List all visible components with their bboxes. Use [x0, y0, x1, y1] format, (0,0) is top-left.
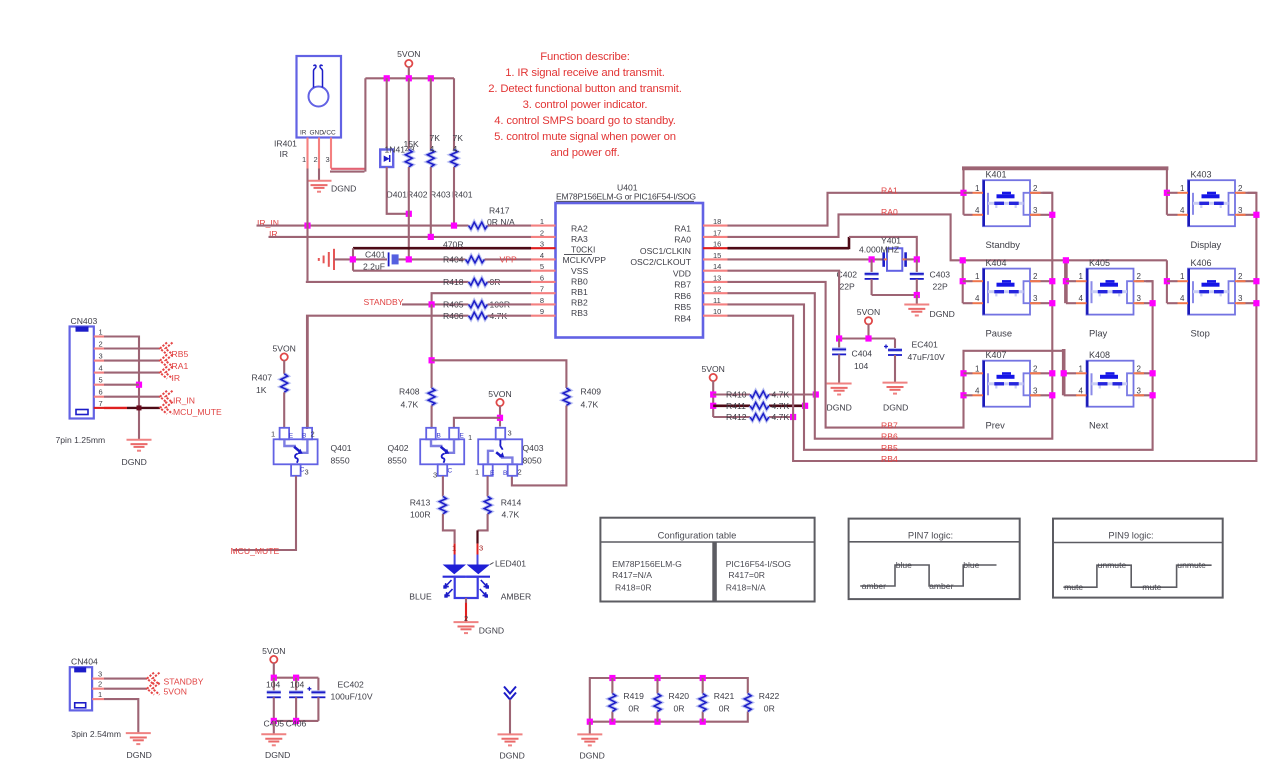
svg-text:1K: 1K — [256, 385, 267, 395]
svg-text:RB6: RB6 — [881, 432, 898, 442]
svg-text:8050: 8050 — [523, 456, 542, 466]
wire R404 to pin 4, net label VPP — [485, 258, 532, 260]
svg-text:13: 13 — [713, 273, 721, 282]
junction K407 pin1 — [960, 370, 966, 376]
connector CN403 7pin 1.25mm — [56, 316, 106, 445]
resistor R418 0R — [469, 279, 488, 286]
svg-text:K408: K408 — [1089, 350, 1110, 360]
net glyph/label STANDBY (CN404) — [147, 673, 160, 685]
svg-text:4.7K: 4.7K — [772, 390, 790, 400]
svg-text:4.7K: 4.7K — [772, 412, 790, 422]
wire rail to D401 — [386, 78, 388, 149]
junction C405 top — [271, 675, 277, 681]
svg-text:3: 3 — [1238, 206, 1243, 215]
wire VCC of IR401 to 5VON rail — [331, 168, 365, 170]
wire OSC2 from pin 15 — [728, 258, 883, 260]
ground DGND below IR401 — [307, 181, 332, 192]
svg-text:0R: 0R — [764, 704, 775, 714]
U401 pin 2 (RA3) — [531, 236, 556, 238]
U401 pin 11 (RB5) — [703, 303, 728, 305]
svg-text:8550: 8550 — [388, 456, 407, 466]
wire RB7 row verticals — [1064, 372, 1076, 374]
junction K406 pin2 / RB4 — [1253, 278, 1259, 284]
junction K403 pin3 / RB4 — [1253, 212, 1259, 218]
key switch K404 Pause — [973, 258, 1041, 339]
net glyph/label IR_IN — [160, 391, 173, 403]
svg-text:2: 2 — [99, 340, 103, 349]
svg-text:4. control SMPS board go to st: 4. control SMPS board go to standby. — [494, 115, 676, 127]
junction crystal right / C403 — [914, 256, 920, 262]
svg-text:3: 3 — [1238, 294, 1243, 303]
svg-text:K404: K404 — [986, 258, 1007, 268]
MCU U401 EM78P156ELM-G or PIC16F54-I/SOG — [556, 183, 704, 338]
svg-text:Stop: Stop — [1191, 327, 1210, 338]
svg-text:5: 5 — [540, 262, 544, 271]
junction K407 pin4 — [960, 392, 966, 398]
IR receiver module IR401 — [274, 56, 341, 159]
wire R420 column — [656, 678, 658, 694]
svg-text:1: 1 — [98, 690, 102, 699]
svg-text:B: B — [437, 433, 441, 440]
svg-text:3: 3 — [1033, 386, 1038, 395]
svg-text:EC401: EC401 — [912, 340, 938, 350]
table: PIN7 logic — [849, 519, 1020, 600]
svg-text:8: 8 — [540, 296, 544, 305]
wire cap bottoms — [872, 294, 917, 296]
resistor R420 0R — [654, 694, 661, 712]
key switch K407 Prev — [973, 350, 1041, 431]
svg-text:RB1: RB1 — [571, 287, 588, 297]
capacitor EC402 100uF/10V — [317, 678, 319, 693]
junction cap bottom rail — [914, 292, 920, 298]
wire CN404 pin2 5VON — [104, 688, 147, 690]
svg-text:5: 5 — [99, 376, 103, 385]
junction K401 pin1 — [960, 190, 966, 196]
svg-text:K401: K401 — [986, 169, 1007, 179]
svg-text:7: 7 — [540, 285, 544, 294]
svg-text:1: 1 — [540, 217, 544, 226]
svg-text:2: 2 — [314, 155, 318, 164]
table: PIN9 logic — [1053, 519, 1223, 598]
net glyph/label MCU_MUTE — [160, 402, 173, 414]
svg-text:7pin 1.25mm: 7pin 1.25mm — [56, 435, 106, 445]
svg-text:2. Detect functional button an: 2. Detect functional button and transmit… — [488, 83, 682, 95]
table: Configuration table — [600, 518, 814, 602]
svg-text:R417: R417 — [489, 206, 510, 216]
svg-text:4.: 4. — [430, 144, 437, 154]
svg-text:BLUE: BLUE — [409, 592, 432, 602]
svg-text:CN404: CN404 — [71, 657, 98, 667]
junction R402 column / pin4 net — [406, 256, 412, 262]
svg-text:RB5: RB5 — [674, 302, 691, 312]
resistor R402 15K — [405, 150, 412, 168]
svg-text:RA0: RA0 — [674, 235, 691, 245]
wire R409 to Q403 base — [512, 406, 567, 486]
svg-text:2: 2 — [1033, 184, 1038, 193]
power symbol 5VON mid — [865, 317, 872, 324]
svg-text:MCU_MUTE: MCU_MUTE — [231, 546, 280, 556]
svg-text:RB4: RB4 — [674, 314, 691, 324]
svg-text:R407: R407 — [252, 373, 273, 383]
svg-text:3: 3 — [305, 468, 309, 477]
resistor R414 4.7K — [484, 496, 491, 514]
svg-text:4.7K: 4.7K — [772, 401, 790, 411]
junction K406 pin3 / RB4 — [1253, 300, 1259, 306]
svg-text:4.7K: 4.7K — [401, 400, 419, 410]
key switch K403 Display — [1178, 169, 1246, 250]
wire R414 to LED pin 3 — [478, 514, 488, 531]
wire Q403 emitter to R414 — [487, 476, 489, 496]
wire R410 line — [713, 393, 750, 395]
junction K404 pin3 / RB6 — [1049, 300, 1055, 306]
svg-text:3: 3 — [326, 155, 330, 164]
net glyph/label 5VON (CN404) — [147, 683, 160, 695]
svg-text:D401: D401 — [387, 190, 408, 200]
wire STANDBY to R405 — [402, 303, 469, 305]
power symbol 5VON caps — [270, 656, 277, 663]
wire rail to R402 — [408, 78, 410, 149]
svg-text:R411: R411 — [726, 401, 746, 411]
svg-text:470R: 470R — [443, 240, 464, 250]
svg-text:104: 104 — [290, 680, 305, 690]
svg-text:100uF/10V: 100uF/10V — [331, 692, 373, 702]
svg-text:EM78P156ELM-G or PIC16F54-I/SO: EM78P156ELM-G or PIC16F54-I/SOG — [556, 192, 696, 202]
wire IR (pin2 net) — [269, 236, 532, 238]
svg-text:7K: 7K — [453, 133, 464, 143]
svg-text:Function describe:: Function describe: — [540, 51, 630, 63]
svg-text:IR_IN: IR_IN — [173, 396, 195, 406]
resistor R413 100R — [440, 496, 447, 514]
junction 5VON tap — [865, 335, 871, 341]
wire crystal right node — [906, 258, 917, 260]
wire cap top rail — [274, 677, 319, 679]
svg-text:RB0: RB0 — [571, 276, 588, 286]
svg-text:3: 3 — [540, 240, 544, 249]
net glyph/label IR — [160, 367, 173, 379]
svg-text:5VON: 5VON — [397, 49, 420, 59]
junction block/ground — [587, 719, 593, 725]
U401 pin 10 (RB4) — [703, 315, 728, 317]
junction R411 / RB5 column — [802, 403, 808, 409]
CN403 pin 6 — [94, 396, 104, 398]
svg-text:2: 2 — [98, 680, 102, 689]
junction K404 pin1 — [960, 278, 966, 284]
svg-text:104: 104 — [266, 680, 281, 690]
svg-text:5VON: 5VON — [272, 344, 295, 354]
U401 pin 7 (RB1) — [531, 292, 556, 294]
svg-text:2: 2 — [540, 228, 544, 237]
svg-text:IR401: IR401 — [274, 139, 297, 149]
svg-text:blue: blue — [896, 560, 912, 570]
svg-text:PIN9 logic:: PIN9 logic: — [1108, 530, 1153, 541]
wire 5VON top rail — [365, 77, 454, 79]
svg-text:4: 4 — [975, 386, 980, 395]
wire R409 branch — [432, 360, 567, 388]
wire block to ground — [589, 722, 591, 735]
resistor R403 4.7K — [427, 150, 434, 168]
svg-text:RA1: RA1 — [172, 361, 189, 371]
svg-text:Play: Play — [1089, 327, 1108, 338]
svg-text:Q403: Q403 — [523, 443, 544, 453]
svg-text:22P: 22P — [840, 282, 856, 292]
svg-text:2: 2 — [1137, 364, 1142, 373]
junction C406 bottom — [293, 718, 299, 724]
wire R412 line — [713, 416, 750, 418]
svg-text:4: 4 — [975, 206, 980, 215]
svg-text:4: 4 — [540, 251, 544, 260]
svg-text:R413: R413 — [410, 498, 431, 508]
wire RB1 pin7 corner — [432, 293, 531, 304]
svg-text:R419: R419 — [623, 691, 644, 701]
svg-text:R420: R420 — [669, 691, 690, 701]
svg-text:R417=N/A: R417=N/A — [612, 570, 652, 580]
U401 pin 9 (RB3) — [531, 315, 556, 317]
resistor R422 0R — [744, 694, 751, 712]
junction R403 / IR — [428, 234, 434, 240]
note: function description text — [488, 51, 682, 159]
svg-text:E: E — [289, 433, 294, 440]
svg-text:8550: 8550 — [331, 456, 350, 466]
svg-text:Configuration table: Configuration table — [658, 530, 737, 541]
CN403 pin 5 — [94, 384, 104, 386]
svg-text:R414: R414 — [501, 498, 522, 508]
svg-text:VDD: VDD — [673, 269, 691, 279]
svg-text:1: 1 — [99, 328, 103, 337]
svg-text:R403: R403 — [430, 190, 451, 200]
wire R411 line thick dark — [713, 404, 750, 407]
power symbol 5VON Q401 — [281, 353, 288, 360]
svg-text:RB5: RB5 — [172, 349, 189, 359]
svg-text:Standby: Standby — [986, 239, 1021, 250]
svg-text:4: 4 — [1079, 386, 1084, 395]
svg-text:R406: R406 — [443, 311, 464, 321]
wire R406 to pin 9 — [488, 315, 532, 317]
svg-text:RA3: RA3 — [571, 234, 588, 244]
junction R419 bottom — [609, 719, 615, 725]
power symbol 5VON Q403 — [496, 399, 503, 406]
svg-text:R418=N/A: R418=N/A — [726, 583, 766, 593]
svg-text:4: 4 — [975, 294, 980, 303]
junction K405 pin3 / RB5 — [1150, 300, 1156, 306]
wire K405 right to RB5 column — [1136, 280, 1153, 282]
junction 5VON / rail — [406, 75, 412, 81]
svg-text:R412: R412 — [726, 412, 747, 422]
wire cap bottom rail — [274, 720, 319, 722]
IR401 pin 1 — [306, 138, 308, 169]
wire to ground under caps — [273, 721, 275, 734]
wire Q402 emitter to 5VON — [454, 418, 500, 428]
key switch K408 Next — [1076, 350, 1144, 431]
ground DGND crystal — [904, 305, 929, 316]
junction K408 pin2 / RB5 — [1150, 370, 1156, 376]
svg-text:RB7: RB7 — [881, 421, 898, 431]
svg-text:4.000MHZ: 4.000MHZ — [859, 245, 899, 255]
svg-text:3: 3 — [433, 471, 437, 480]
svg-text:22P: 22P — [933, 282, 949, 292]
junction R403 column / rail — [428, 75, 434, 81]
resistor R404 470R — [466, 256, 485, 263]
IR401 pin 2 — [318, 138, 320, 169]
wire K406 right to RB4 column — [1237, 280, 1256, 282]
svg-text:EC402: EC402 — [338, 680, 364, 690]
transistor Q403 8050 — [478, 428, 522, 476]
svg-text:1: 1 — [1180, 184, 1185, 193]
net glyph/label RA1 — [160, 355, 173, 367]
svg-text:DGND: DGND — [122, 457, 147, 467]
wire T0CKI thick dark (pin3) — [353, 247, 531, 250]
svg-text:C406: C406 — [286, 719, 307, 729]
wire RB4 (pin 10) — [728, 193, 1257, 461]
svg-text:4.: 4. — [453, 144, 460, 154]
wire CN403 pin2 RB5 — [104, 347, 160, 349]
svg-text:3: 3 — [98, 670, 102, 679]
wire RA0 from pin 17 — [728, 214, 1167, 260]
U401 pin 1 (RA2) — [531, 225, 556, 227]
U401 pin 12 (RB6) — [703, 292, 728, 294]
resistor R409 4.7K — [563, 388, 570, 406]
svg-text:4: 4 — [1180, 206, 1185, 215]
svg-text:Q402: Q402 — [388, 443, 409, 453]
svg-text:3: 3 — [99, 352, 103, 361]
svg-text:AMBER: AMBER — [501, 592, 532, 602]
junction R421 bottom — [700, 719, 706, 725]
svg-text:6: 6 — [99, 388, 103, 397]
svg-text:2: 2 — [311, 430, 315, 439]
svg-text:mute: mute — [1064, 582, 1083, 592]
svg-text:2: 2 — [1137, 272, 1142, 281]
crystal Y401 4.000MHZ — [859, 236, 906, 271]
wire K403 right to RB4 column — [1237, 192, 1256, 194]
wire RA1 from pin 18 — [728, 193, 964, 226]
wire IR401 pin2 to ground — [318, 169, 320, 181]
svg-text:Prev: Prev — [986, 420, 1006, 431]
svg-text:VSS: VSS — [571, 266, 588, 276]
wire R403 to IR line — [430, 167, 432, 237]
wire Q402 collector to R413 — [442, 476, 444, 496]
resistor R410 4.7K — [750, 391, 769, 398]
CN403 pin 3 — [94, 360, 104, 362]
svg-text:2: 2 — [1033, 272, 1038, 281]
wire RB7 (pin 13) — [728, 282, 1064, 428]
junction C406 top — [293, 675, 299, 681]
junction R411 tap — [710, 403, 716, 409]
capacitor C405 104 — [273, 678, 275, 693]
wire RA0 row verticals — [962, 260, 964, 303]
svg-text:PIN7 logic:: PIN7 logic: — [908, 530, 953, 541]
svg-text:VCC: VCC — [322, 130, 336, 137]
svg-text:unmute: unmute — [1177, 560, 1206, 570]
svg-text:0R: 0R — [674, 704, 685, 714]
CN403 pin 7 — [94, 407, 104, 409]
ground DGND spare — [498, 734, 523, 745]
svg-text:PIC16F54-I/SOG: PIC16F54-I/SOG — [726, 559, 792, 569]
junction R410 tap — [710, 391, 716, 397]
svg-text:amber: amber — [929, 581, 953, 591]
svg-text:4.7K: 4.7K — [581, 400, 599, 410]
svg-text:IR: IR — [300, 130, 307, 137]
wire R407 to Q401 emitter — [283, 392, 285, 428]
svg-text:5VON: 5VON — [488, 389, 511, 399]
wire OSC1 thick dark from pin 16 — [728, 247, 850, 250]
wire IR_IN (pin1 net) — [257, 225, 469, 227]
resistor R401 4.7K — [451, 150, 458, 168]
U401 pin 13 (RB7) — [703, 281, 728, 283]
resistor R407 1K — [281, 374, 288, 393]
svg-text:R421: R421 — [714, 691, 735, 701]
svg-text:RB2: RB2 — [571, 298, 588, 308]
wire R413 to LED pin 1 — [443, 514, 455, 544]
svg-text:DGND: DGND — [930, 309, 955, 319]
svg-text:5VON: 5VON — [164, 687, 187, 697]
wire OSC1 over crystal — [849, 237, 917, 260]
svg-text:VPP: VPP — [500, 254, 517, 264]
svg-text:R422: R422 — [759, 691, 780, 701]
svg-text:1: 1 — [1180, 272, 1185, 281]
svg-text:1: 1 — [468, 433, 472, 442]
svg-text:11: 11 — [713, 296, 721, 305]
svg-text:RA2: RA2 — [571, 223, 588, 233]
junction D401 column / rail — [384, 75, 390, 81]
svg-text:15: 15 — [713, 251, 721, 260]
wire CN403 pin5 — [104, 384, 139, 386]
junction IR column / IR_IN — [304, 223, 310, 229]
ground DGND CN404 — [126, 733, 151, 744]
svg-text:mute: mute — [1142, 582, 1161, 592]
resistor R405 100R — [469, 301, 488, 308]
svg-text:R418: R418 — [443, 277, 464, 287]
ground DGND caps — [261, 734, 286, 745]
svg-text:6: 6 — [540, 273, 544, 282]
CN403 pin 4 — [94, 372, 104, 374]
svg-text:C403: C403 — [930, 270, 951, 280]
svg-text:9: 9 — [540, 307, 544, 316]
svg-text:RB5: RB5 — [881, 443, 898, 453]
svg-text:and power off.: and power off. — [550, 147, 619, 159]
svg-text:CN403: CN403 — [71, 316, 98, 326]
svg-text:R401: R401 — [452, 190, 473, 200]
CN404 pin 1 — [92, 698, 104, 700]
wire R417 to pin 1 — [488, 225, 532, 227]
svg-text:3: 3 — [479, 544, 483, 553]
wire Q401 collector to MCU_MUTE — [233, 476, 296, 550]
key switch K406 Stop — [1178, 258, 1246, 339]
wire chevron to ground — [509, 700, 511, 735]
svg-text:5VON: 5VON — [857, 307, 880, 317]
U401 pin 15 (OSC2/CLKOUT) — [703, 258, 728, 260]
svg-text:B: B — [503, 470, 507, 477]
capacitor C406 104 — [295, 678, 297, 693]
svg-text:5VON: 5VON — [262, 646, 285, 656]
resistor R412 4.7K — [750, 414, 769, 421]
svg-text:R417=0R: R417=0R — [728, 570, 765, 580]
svg-text:2: 2 — [1238, 272, 1243, 281]
U401 pin 17 (RA0) — [703, 236, 728, 238]
svg-text:Q401: Q401 — [331, 443, 352, 453]
wire RB5 (pin 11) — [728, 281, 1153, 450]
wire K404 right to RB6 column — [1030, 280, 1052, 282]
wire R402 to C401 node — [408, 167, 410, 259]
wire T0CKI corner down to VSS node — [352, 248, 354, 271]
svg-text:1: 1 — [452, 544, 456, 553]
svg-text:3. control power indicator.: 3. control power indicator. — [523, 99, 648, 111]
svg-text:Display: Display — [1191, 239, 1222, 250]
wire C401 to pin4 net — [399, 258, 466, 260]
LED401 dual LED BLUE/AMBER — [409, 544, 531, 602]
junction VDD/C404 — [836, 335, 842, 341]
svg-text:2: 2 — [1238, 184, 1243, 193]
svg-text:14: 14 — [713, 262, 721, 271]
svg-text:C404: C404 — [852, 349, 873, 359]
